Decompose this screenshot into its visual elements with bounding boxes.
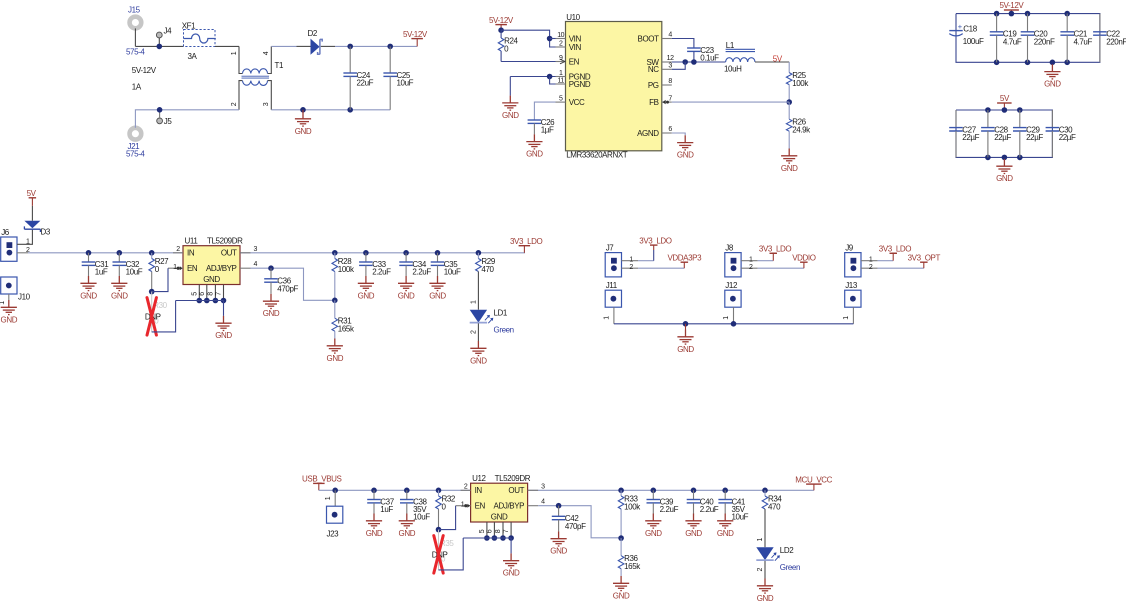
svg-text:GND: GND <box>717 529 734 538</box>
svg-text:GND: GND <box>781 164 798 173</box>
svg-text:GND: GND <box>502 111 519 120</box>
svg-text:7: 7 <box>668 95 672 102</box>
svg-text:22µF: 22µF <box>994 133 1011 142</box>
svg-text:3V3_LDO: 3V3_LDO <box>639 236 672 245</box>
svg-text:VCC: VCC <box>569 98 585 107</box>
svg-text:8: 8 <box>495 529 502 533</box>
svg-text:4: 4 <box>668 32 672 39</box>
svg-text:5V-12V: 5V-12V <box>489 16 514 25</box>
svg-text:1: 1 <box>0 301 6 305</box>
svg-text:VDDIO: VDDIO <box>792 253 816 262</box>
svg-text:4: 4 <box>541 499 545 506</box>
svg-text:2.2uF: 2.2uF <box>412 268 431 277</box>
svg-text:10uH: 10uH <box>724 65 742 74</box>
svg-text:7: 7 <box>216 292 223 296</box>
svg-text:GND: GND <box>645 529 662 538</box>
svg-text:10uF: 10uF <box>397 79 414 88</box>
svg-text:C18: C18 <box>963 25 977 34</box>
svg-text:1µF: 1µF <box>541 126 554 135</box>
svg-text:GND: GND <box>1044 80 1061 89</box>
svg-text:1: 1 <box>869 256 873 263</box>
svg-text:10uF: 10uF <box>413 513 430 522</box>
svg-text:GND: GND <box>80 291 97 300</box>
svg-text:GND: GND <box>263 309 280 318</box>
svg-text:J11: J11 <box>606 281 618 290</box>
svg-text:J23: J23 <box>327 530 340 539</box>
svg-text:220nF: 220nF <box>1034 37 1055 46</box>
svg-text:6: 6 <box>199 292 206 296</box>
svg-text:470pF: 470pF <box>565 522 586 531</box>
svg-text:GND: GND <box>470 356 487 365</box>
svg-text:J7: J7 <box>606 244 615 253</box>
svg-text:+: + <box>958 22 963 31</box>
svg-text:3V3_OPT: 3V3_OPT <box>908 253 941 262</box>
svg-text:1: 1 <box>325 496 332 500</box>
svg-text:Green: Green <box>780 563 800 572</box>
svg-text:1A: 1A <box>132 82 142 91</box>
svg-text:2: 2 <box>749 264 753 271</box>
svg-text:7: 7 <box>503 529 510 533</box>
svg-text:MCU_VCC: MCU_VCC <box>795 475 832 484</box>
svg-text:2: 2 <box>470 330 477 334</box>
svg-text:LMR33620ARNXT: LMR33620ARNXT <box>566 150 628 159</box>
svg-text:100k: 100k <box>792 79 809 88</box>
svg-text:2: 2 <box>176 246 180 253</box>
svg-text:EN: EN <box>475 502 486 511</box>
svg-text:GND: GND <box>613 591 630 600</box>
svg-text:1: 1 <box>749 256 753 263</box>
svg-text:2: 2 <box>869 264 873 271</box>
svg-text:2: 2 <box>629 264 633 271</box>
svg-text:GND: GND <box>295 127 312 136</box>
svg-text:TL5209DR: TL5209DR <box>207 236 243 245</box>
svg-text:Green: Green <box>494 326 514 335</box>
svg-text:3: 3 <box>668 63 672 70</box>
svg-text:U11: U11 <box>185 236 199 245</box>
svg-text:GND: GND <box>358 291 375 300</box>
svg-text:3: 3 <box>254 246 258 253</box>
svg-text:1: 1 <box>461 501 465 508</box>
svg-text:10uF: 10uF <box>126 268 143 277</box>
svg-text:T1: T1 <box>275 61 284 70</box>
svg-text:3V3_LDO: 3V3_LDO <box>759 245 792 254</box>
svg-text:J5: J5 <box>164 117 173 126</box>
svg-text:FB: FB <box>649 98 658 107</box>
svg-text:1: 1 <box>173 264 177 271</box>
svg-text:J12: J12 <box>725 281 738 290</box>
svg-text:U12: U12 <box>472 474 486 483</box>
svg-text:5V-12V: 5V-12V <box>403 30 428 39</box>
svg-text:0: 0 <box>504 44 509 53</box>
svg-text:J13: J13 <box>845 281 858 290</box>
svg-text:1: 1 <box>26 239 30 246</box>
svg-text:GND: GND <box>685 529 702 538</box>
svg-text:0: 0 <box>155 265 160 274</box>
svg-text:GND: GND <box>491 512 508 521</box>
svg-text:100k: 100k <box>624 502 641 511</box>
svg-text:3V3_LDO: 3V3_LDO <box>879 245 912 254</box>
svg-text:LD1: LD1 <box>494 309 508 318</box>
svg-text:2: 2 <box>559 40 563 47</box>
svg-text:GND: GND <box>677 345 694 354</box>
svg-text:100uF: 100uF <box>963 37 984 46</box>
svg-text:8: 8 <box>668 78 672 85</box>
svg-text:12: 12 <box>667 55 674 62</box>
svg-text:GND: GND <box>366 529 383 538</box>
svg-text:EN: EN <box>187 264 198 273</box>
svg-text:GND: GND <box>996 174 1013 183</box>
svg-text:VDDA3P3: VDDA3P3 <box>667 253 702 262</box>
svg-text:J6: J6 <box>1 228 10 237</box>
svg-text:5V: 5V <box>27 189 37 198</box>
svg-text:4: 4 <box>263 51 270 55</box>
svg-text:BOOT: BOOT <box>638 34 660 43</box>
svg-text:2: 2 <box>757 568 764 572</box>
svg-text:EN: EN <box>569 57 580 66</box>
svg-text:1uF: 1uF <box>95 268 108 277</box>
svg-text:L1: L1 <box>726 41 735 50</box>
svg-text:J10: J10 <box>18 293 31 302</box>
svg-text:3A: 3A <box>188 52 198 61</box>
svg-text:GND: GND <box>111 291 128 300</box>
svg-text:470pF: 470pF <box>277 284 298 293</box>
svg-text:5: 5 <box>479 529 486 533</box>
svg-text:PG: PG <box>648 81 659 90</box>
svg-text:GND: GND <box>429 291 446 300</box>
svg-text:0.1uF: 0.1uF <box>700 54 719 63</box>
svg-text:4: 4 <box>254 261 258 268</box>
svg-text:0: 0 <box>442 502 447 511</box>
svg-text:470: 470 <box>768 502 781 511</box>
svg-text:10uF: 10uF <box>444 268 461 277</box>
svg-text:22uF: 22uF <box>357 79 374 88</box>
svg-text:5V: 5V <box>773 54 783 63</box>
svg-text:ADJ/BYP: ADJ/BYP <box>206 264 237 273</box>
svg-text:1: 1 <box>231 51 238 55</box>
svg-text:220nF: 220nF <box>1106 37 1126 46</box>
svg-text:22µF: 22µF <box>1026 133 1043 142</box>
svg-text:ADJ/BYP: ADJ/BYP <box>494 502 525 511</box>
svg-text:2.2uF: 2.2uF <box>700 505 719 514</box>
svg-text:GND: GND <box>1 315 18 324</box>
svg-text:OUT: OUT <box>508 486 524 495</box>
svg-text:GND: GND <box>503 569 520 578</box>
svg-text:GND: GND <box>526 150 543 159</box>
svg-text:9: 9 <box>559 55 563 62</box>
svg-text:470: 470 <box>481 265 494 274</box>
svg-text:GND: GND <box>550 547 567 556</box>
svg-text:2.2uF: 2.2uF <box>660 505 679 514</box>
svg-text:5V-12V: 5V-12V <box>132 66 157 75</box>
svg-text:2: 2 <box>464 483 468 490</box>
svg-text:3V3_LDO: 3V3_LDO <box>510 237 543 246</box>
svg-text:VIN: VIN <box>569 43 582 52</box>
svg-text:XF1: XF1 <box>182 22 196 31</box>
svg-text:USB_VBUS: USB_VBUS <box>302 475 342 484</box>
svg-text:GND: GND <box>398 291 415 300</box>
svg-text:10uF: 10uF <box>732 513 749 522</box>
svg-text:11: 11 <box>557 77 564 84</box>
svg-text:J8: J8 <box>725 244 734 253</box>
svg-text:1: 1 <box>629 256 633 263</box>
svg-text:24.9k: 24.9k <box>792 126 811 135</box>
svg-text:1: 1 <box>843 316 850 320</box>
svg-text:GND: GND <box>327 354 344 363</box>
svg-text:J9: J9 <box>845 244 854 253</box>
svg-text:165k: 165k <box>338 325 355 334</box>
svg-text:1uF: 1uF <box>380 505 393 514</box>
svg-text:10: 10 <box>557 32 564 39</box>
svg-text:6: 6 <box>668 126 672 133</box>
svg-text:IN: IN <box>475 486 483 495</box>
svg-text:U10: U10 <box>566 13 580 22</box>
svg-text:1: 1 <box>604 316 611 320</box>
svg-text:2.2uF: 2.2uF <box>372 268 391 277</box>
svg-text:GND: GND <box>399 529 416 538</box>
svg-text:4.7uF: 4.7uF <box>1074 37 1093 46</box>
svg-text:LD2: LD2 <box>780 546 794 555</box>
svg-text:5: 5 <box>191 292 198 296</box>
svg-text:GND: GND <box>677 151 694 160</box>
svg-text:J4: J4 <box>164 27 173 36</box>
svg-text:J15: J15 <box>128 5 141 14</box>
svg-text:NC: NC <box>648 65 659 74</box>
svg-text:3: 3 <box>541 483 545 490</box>
svg-text:GND: GND <box>757 594 774 601</box>
svg-text:8: 8 <box>207 292 214 296</box>
svg-text:575-4: 575-4 <box>126 47 145 56</box>
svg-text:6: 6 <box>486 529 493 533</box>
svg-text:165k: 165k <box>624 562 641 571</box>
svg-text:575-4: 575-4 <box>126 150 145 159</box>
svg-text:5V-12V: 5V-12V <box>999 1 1024 10</box>
svg-text:5: 5 <box>559 96 563 103</box>
svg-text:1: 1 <box>723 316 730 320</box>
svg-text:GND: GND <box>203 275 220 284</box>
svg-text:1: 1 <box>559 70 563 77</box>
svg-text:AGND: AGND <box>637 129 659 138</box>
svg-text:22µF: 22µF <box>1059 133 1076 142</box>
svg-text:D3: D3 <box>41 228 51 237</box>
svg-text:5V: 5V <box>1000 94 1010 103</box>
svg-text:D2: D2 <box>308 29 318 38</box>
svg-text:TL5209DR: TL5209DR <box>495 474 531 483</box>
svg-text:OUT: OUT <box>221 249 237 258</box>
svg-text:100k: 100k <box>338 265 355 274</box>
svg-text:1: 1 <box>757 537 764 541</box>
svg-text:22µF: 22µF <box>962 133 979 142</box>
svg-text:2: 2 <box>231 102 238 106</box>
svg-text:PGND: PGND <box>569 80 591 89</box>
svg-text:1: 1 <box>470 300 477 304</box>
svg-text:4.7uF: 4.7uF <box>1003 37 1022 46</box>
svg-text:IN: IN <box>187 249 195 258</box>
svg-text:3: 3 <box>263 102 270 106</box>
svg-text:GND: GND <box>215 331 232 340</box>
